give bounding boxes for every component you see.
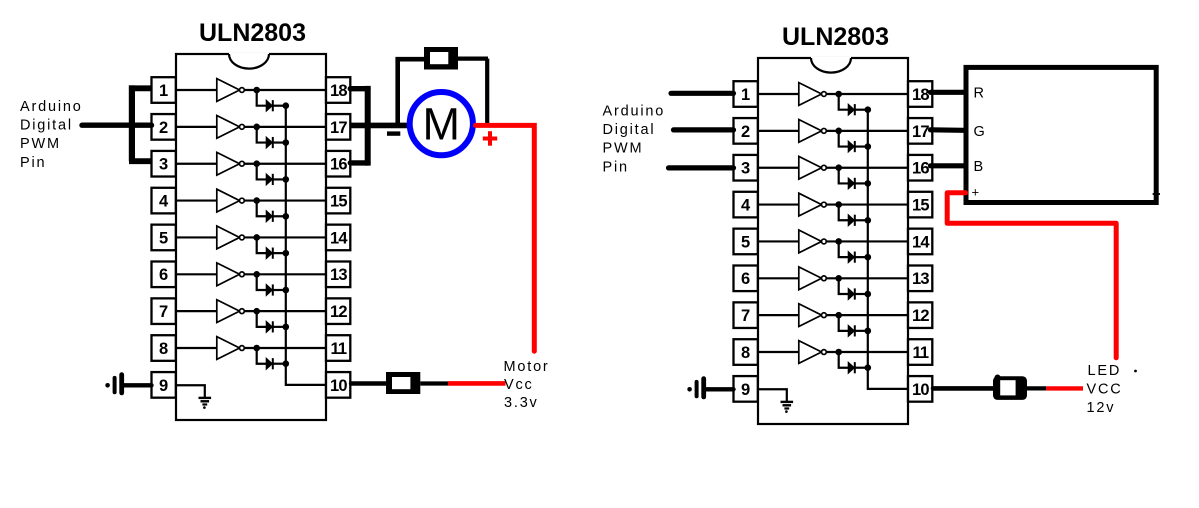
buffer U2 channel 1 triangle [799, 83, 822, 106]
wire diode D5 cathode to common rail [855, 256, 868, 258]
wire VCC feed (red, right) [1046, 386, 1083, 390]
buffer U1 channel 4 output bubble [240, 198, 245, 203]
wire buffer output to pin 17 [244, 126, 326, 128]
buffer U2 channel 6 output bubble [822, 276, 827, 281]
junction node output 7 [253, 308, 260, 315]
wire output to diode D8 [257, 348, 266, 364]
svg-text:13: 13 [330, 266, 347, 284]
pin 2 box [152, 114, 176, 140]
stray dot after LED label [1134, 370, 1137, 373]
junction node rail row 1 [283, 102, 290, 109]
diode D7 [848, 325, 855, 336]
wire pin 18 to motor bus [350, 86, 368, 91]
wire output to diode D3 [839, 168, 848, 184]
svg-text:4: 4 [159, 192, 169, 210]
junction node output 1 [835, 91, 842, 98]
wire PWM input to pin 2 (right) [674, 127, 734, 132]
svg-text:+: + [972, 185, 980, 200]
svg-text:10: 10 [912, 381, 929, 399]
pin 16 box [908, 155, 932, 181]
wire snubber left leg [398, 59, 424, 125]
buffer U1 channel 1 output bubble [240, 88, 245, 93]
svg-text:10: 10 [330, 377, 347, 395]
wire pin 16 to motor bus [350, 160, 368, 165]
svg-text:Motor: Motor [504, 359, 550, 375]
junction node output 6 [253, 271, 260, 278]
wire output to diode D8 [839, 352, 848, 368]
junction node output 5 [253, 234, 260, 241]
wire buffer output to pin 11 [244, 347, 326, 349]
svg-text:Digital: Digital [20, 118, 73, 134]
wire diode D7 cathode to common rail [273, 326, 286, 328]
junction node rail row 3 [283, 176, 290, 183]
fuse/resistor F1 (motor snubber) [424, 47, 458, 70]
wire fuse F3 to VCC junction [1027, 386, 1046, 390]
pin 3 box [152, 151, 176, 177]
junction node output 8 [835, 349, 842, 356]
svg-text:R: R [974, 85, 984, 101]
wire output to diode D7 [257, 311, 266, 327]
pin 3 box [734, 155, 758, 181]
svg-text:15: 15 [330, 192, 347, 210]
svg-text:PWM: PWM [20, 136, 61, 152]
junction node rail row 4 [865, 217, 872, 224]
wire diode D7 cathode to common rail [855, 330, 868, 332]
pin 13 box [326, 262, 350, 288]
junction node output 6 [835, 275, 842, 282]
svg-text:14: 14 [912, 233, 930, 251]
svg-text:8: 8 [159, 340, 168, 358]
wire pin 17 to G [931, 127, 964, 133]
wire pin 9 to internal ground [176, 385, 205, 398]
svg-text:VCC: VCC [1087, 382, 1123, 398]
pin 14 box [908, 229, 932, 255]
junction node output 7 [835, 312, 842, 319]
junction node output 4 [835, 201, 842, 208]
wire diode D1 cathode to common rail [273, 105, 286, 107]
svg-text:17: 17 [912, 123, 929, 141]
wire output to diode D2 [257, 127, 266, 143]
wire + terminal to 12v supply (red) [947, 193, 1116, 358]
wire buffer output to pin 12 [826, 314, 908, 316]
wire output to diode D1 [839, 94, 848, 110]
pin 12 box [326, 298, 350, 324]
buffer U1 channel 3 triangle [217, 152, 240, 175]
pin 18 box [326, 77, 350, 103]
junction node output 1 [253, 87, 260, 94]
wire PWM input to pin 1 (right) [671, 91, 734, 96]
svg-text:7: 7 [741, 307, 750, 325]
svg-text:12v: 12v [1087, 400, 1116, 416]
svg-text:9: 9 [741, 381, 750, 399]
buffer U2 channel 2 triangle [799, 119, 822, 142]
wire output to diode D1 [257, 90, 266, 106]
junction node rail row 7 [283, 324, 290, 331]
pin 16 box [326, 151, 350, 177]
wire diode D8 cathode to common rail [855, 367, 868, 369]
buffer U1 channel 1 triangle [217, 79, 240, 102]
svg-text:18: 18 [912, 86, 929, 104]
junction node output 2 [253, 124, 260, 131]
junction node rail row 4 [283, 213, 290, 220]
diode D3 [848, 178, 855, 189]
junction node rail row 8 [865, 364, 872, 371]
buffer U1 channel 4 triangle [217, 189, 240, 212]
diode D6 [848, 288, 855, 299]
wire buffer output to pin 13 [826, 277, 908, 279]
buffer U2 channel 6 triangle [799, 267, 822, 290]
buffer U1 channel 5 output bubble [240, 235, 245, 240]
svg-text:12: 12 [330, 303, 347, 321]
svg-text:5: 5 [159, 229, 168, 247]
pin 15 box [908, 192, 932, 218]
svg-text:11: 11 [912, 344, 928, 362]
wire diode D4 cathode to common rail [273, 215, 286, 217]
pin 6 box [734, 266, 758, 292]
buffer U1 channel 6 triangle [217, 263, 240, 286]
junction node output 4 [253, 197, 260, 204]
motor M1 [410, 92, 473, 155]
wire pin 8 input to buffer [176, 347, 217, 349]
IC U2 pin-1 notch [811, 57, 851, 73]
pin 17 box [908, 118, 932, 144]
svg-text:G: G [974, 124, 985, 140]
svg-text:6: 6 [741, 270, 750, 288]
pin 13 box [908, 266, 932, 292]
wire motor positive to Vcc (red) [476, 125, 535, 351]
diode D8 [848, 362, 855, 373]
diode D1 [848, 104, 855, 115]
junction node rail row 3 [865, 180, 872, 187]
diode D6 [266, 284, 273, 295]
buffer U2 channel 5 output bubble [822, 239, 827, 244]
pin 15 box [326, 188, 350, 214]
wire Arduino PWM input to pin 2 [82, 122, 152, 127]
junction node output 8 [253, 345, 260, 352]
wire buffer output to pin 12 [244, 310, 326, 312]
pin 1 box [734, 81, 758, 107]
svg-text:B: B [974, 159, 984, 175]
junction node rail row 5 [865, 254, 872, 261]
svg-text:8: 8 [741, 344, 750, 362]
wire diode D5 cathode to common rail [273, 252, 286, 254]
ground symbol (external, pin 9 U2) [687, 379, 703, 397]
pin 11 box [326, 335, 350, 361]
wire diode D1 cathode to common rail [855, 109, 868, 111]
wire pin 8 input to buffer [758, 351, 799, 353]
wire buffer output to pin 16 [244, 163, 326, 165]
junction node rail row 1 [865, 106, 872, 113]
ground symbol (inside U2) [781, 402, 794, 413]
svg-text:6: 6 [159, 266, 168, 284]
wire diode D8 cathode to common rail [273, 363, 286, 365]
svg-text:15: 15 [912, 196, 929, 214]
wire motor bus vertical [365, 86, 371, 166]
pin 11 box [908, 339, 932, 365]
pin 12 box [908, 302, 932, 328]
wire common-cathode rail to pin 10 [286, 106, 326, 385]
buffer U2 channel 1 output bubble [822, 92, 827, 97]
pin 8 box [152, 335, 176, 361]
IC body U2 ULN2803 outline [758, 58, 908, 424]
buffer U1 channel 7 output bubble [240, 309, 245, 314]
svg-text:7: 7 [159, 303, 168, 321]
junction node rail row 6 [865, 291, 872, 298]
pin 5 box [152, 225, 176, 251]
buffer U1 channel 8 triangle [217, 337, 240, 360]
wire pin 7 input to buffer [758, 314, 799, 316]
wire pin 16 to B [931, 163, 964, 168]
buffer U1 channel 3 output bubble [240, 161, 245, 166]
svg-text:2: 2 [741, 123, 750, 141]
svg-text:5: 5 [741, 233, 750, 251]
wire diode D2 cathode to common rail [855, 145, 868, 147]
svg-text:16: 16 [912, 160, 929, 178]
buffer U2 channel 8 triangle [799, 341, 822, 364]
junction node rail row 5 [283, 250, 290, 257]
wire pin 7 input to buffer [176, 310, 217, 312]
diode D4 [266, 211, 273, 222]
label motor positive terminal [483, 131, 497, 146]
wire buffer output to pin 17 [826, 130, 908, 132]
wire diode D3 cathode to common rail [855, 182, 868, 184]
wire buffer output to pin 14 [826, 240, 908, 242]
diode D4 [848, 215, 855, 226]
pin 9 box [152, 372, 176, 398]
wire common-cathode rail to pin 10 [868, 110, 908, 389]
wire pin 4 input to buffer [176, 199, 217, 201]
buffer U1 channel 2 output bubble [240, 124, 245, 129]
buffer U2 channel 7 output bubble [822, 313, 827, 318]
wire fuse F2 to Vcc junction [420, 381, 448, 385]
wire snubber right leg [458, 59, 488, 124]
diode D8 [266, 358, 273, 369]
buffer U2 channel 7 triangle [799, 304, 822, 327]
wire output to diode D4 [839, 205, 848, 221]
wire pin 10 to fuse F3 [933, 386, 993, 391]
svg-text:3.3v: 3.3v [504, 395, 539, 411]
diode D1 [266, 100, 273, 111]
wire buffer output to pin 15 [826, 203, 908, 205]
svg-text:18: 18 [330, 82, 347, 100]
svg-text:13: 13 [912, 270, 929, 288]
wire PWM input to pin 3 (right) [669, 165, 734, 170]
wire output to diode D5 [839, 241, 848, 257]
svg-text:Arduino: Arduino [603, 103, 666, 119]
wire pin 6 input to buffer [758, 277, 799, 279]
junction node rail row 7 [865, 328, 872, 335]
pin 5 box [734, 229, 758, 255]
ground symbol (inside U1) [199, 398, 212, 409]
wire Vcc feed (red) [448, 381, 506, 386]
svg-text:ULN2803: ULN2803 [199, 19, 306, 47]
wire pin 9 to internal ground [758, 389, 787, 402]
junction node output 3 [835, 164, 842, 171]
label motor negative terminal [387, 131, 400, 135]
wire pin 5 input to buffer [758, 240, 799, 242]
wire output to diode D5 [257, 237, 266, 253]
pin 4 box [152, 188, 176, 214]
wire harness to pin 1 [129, 85, 152, 91]
svg-text:9: 9 [159, 377, 168, 395]
wire diode D6 cathode to common rail [855, 293, 868, 295]
svg-text:Digital: Digital [603, 122, 656, 138]
svg-text:1: 1 [159, 82, 168, 100]
pin 8 box [734, 339, 758, 365]
wire buffer output to pin 16 [826, 167, 908, 169]
junction node rail row 6 [283, 287, 290, 294]
junction node rail row 8 [283, 360, 290, 367]
fuse/resistor F3 (LED supply) [993, 375, 1027, 400]
wire pin 6 input to buffer [176, 273, 217, 275]
wire output to diode D2 [839, 131, 848, 147]
svg-text:LED: LED [1088, 363, 1122, 379]
pin 9 box [734, 376, 758, 402]
junction node output 2 [835, 128, 842, 135]
wire pin 3 input to buffer [758, 167, 799, 169]
wire buffer output to pin 15 [244, 199, 326, 201]
svg-text:M: M [423, 99, 461, 150]
RGB LED module box [966, 67, 1156, 202]
svg-text:3: 3 [159, 156, 168, 174]
svg-text:Pin: Pin [603, 159, 629, 175]
buffer U1 channel 2 triangle [217, 115, 240, 138]
pin 1 box [152, 77, 176, 103]
svg-text:4: 4 [741, 196, 751, 214]
buffer U2 channel 5 triangle [799, 230, 822, 253]
svg-text:16: 16 [330, 156, 347, 174]
junction node rail row 2 [283, 139, 290, 146]
wire output to diode D4 [257, 201, 266, 217]
pin 18 box [908, 81, 932, 107]
IC U1 pin-1 notch [229, 53, 269, 69]
wire diode D2 cathode to common rail [273, 141, 286, 143]
wire pin 1 input to buffer [176, 89, 217, 91]
svg-text:Arduino: Arduino [20, 99, 83, 115]
pin 10 box [908, 376, 932, 402]
buffer U2 channel 3 output bubble [822, 165, 827, 170]
wire pin 1 input to buffer [758, 93, 799, 95]
wire pin 2 input to buffer [176, 126, 217, 128]
diode D5 [848, 252, 855, 263]
buffer U2 channel 8 output bubble [822, 350, 827, 355]
diode D5 [266, 248, 273, 259]
wire input harness vertical bus [129, 85, 135, 161]
fuse/resistor F2 (motor supply) [386, 372, 420, 394]
pin 14 box [326, 225, 350, 251]
buffer U1 channel 8 output bubble [240, 346, 245, 351]
pin 7 box [734, 302, 758, 328]
buffer U1 channel 6 output bubble [240, 272, 245, 277]
wire pin 2 input to buffer [758, 130, 799, 132]
wire external ground to pin 9 [706, 387, 734, 391]
junction node rail row 2 [865, 143, 872, 150]
svg-text:PWM: PWM [603, 141, 644, 157]
pin 7 box [152, 298, 176, 324]
diode D7 [266, 321, 273, 332]
buffer U2 channel 2 output bubble [822, 128, 827, 133]
svg-text:ULN2803: ULN2803 [782, 23, 889, 51]
diode D3 [266, 174, 273, 185]
wire diode D4 cathode to common rail [855, 219, 868, 221]
svg-text:Pin: Pin [20, 155, 46, 171]
wire buffer output to pin 13 [244, 273, 326, 275]
pin 17 box [326, 114, 350, 140]
wire buffer output to pin 11 [826, 351, 908, 353]
wire output to diode D6 [839, 278, 848, 294]
ground symbol (external, pin 9 U1) [105, 375, 121, 393]
wire buffer output to pin 18 [244, 89, 326, 91]
IC body U1 ULN2803 outline [176, 54, 326, 420]
svg-text:1: 1 [741, 86, 750, 104]
svg-text:17: 17 [330, 119, 347, 137]
svg-text:3: 3 [741, 160, 750, 178]
wire buffer output to pin 14 [244, 236, 326, 238]
buffer U2 channel 4 triangle [799, 193, 822, 216]
wire harness to pin 3 [129, 158, 152, 164]
wire external ground to pin 9 [124, 383, 152, 387]
buffer U1 channel 7 triangle [217, 300, 240, 323]
pin 4 box [734, 192, 758, 218]
wire pin 5 input to buffer [176, 236, 217, 238]
junction node output 5 [835, 238, 842, 245]
wire output to diode D3 [257, 164, 266, 180]
diode D2 [266, 137, 273, 148]
wire pin 17 to motor negative terminal [350, 123, 407, 129]
buffer U2 channel 4 output bubble [822, 202, 827, 207]
buffer U1 channel 5 triangle [217, 226, 240, 249]
svg-text:12: 12 [912, 307, 929, 325]
pin 6 box [152, 262, 176, 288]
wire output to diode D6 [257, 274, 266, 290]
wire pin 3 input to buffer [176, 163, 217, 165]
buffer U2 channel 3 triangle [799, 156, 822, 179]
svg-text:11: 11 [330, 340, 346, 358]
wire diode D6 cathode to common rail [273, 289, 286, 291]
svg-text:Vcc: Vcc [504, 377, 534, 393]
wire pin 18 to R [931, 90, 964, 95]
wire output to diode D7 [839, 315, 848, 331]
wire pin 10 to fuse F2 [351, 381, 386, 385]
junction node output 3 [253, 160, 260, 167]
pin 2 box [734, 118, 758, 144]
svg-text:14: 14 [330, 229, 348, 247]
diode D2 [848, 141, 855, 152]
wire buffer output to pin 18 [826, 93, 908, 95]
svg-text:2: 2 [159, 119, 168, 137]
tick mark right edge of module [1153, 193, 1160, 195]
wire diode D3 cathode to common rail [273, 178, 286, 180]
pin 10 box [326, 372, 350, 398]
wire pin 4 input to buffer [758, 203, 799, 205]
